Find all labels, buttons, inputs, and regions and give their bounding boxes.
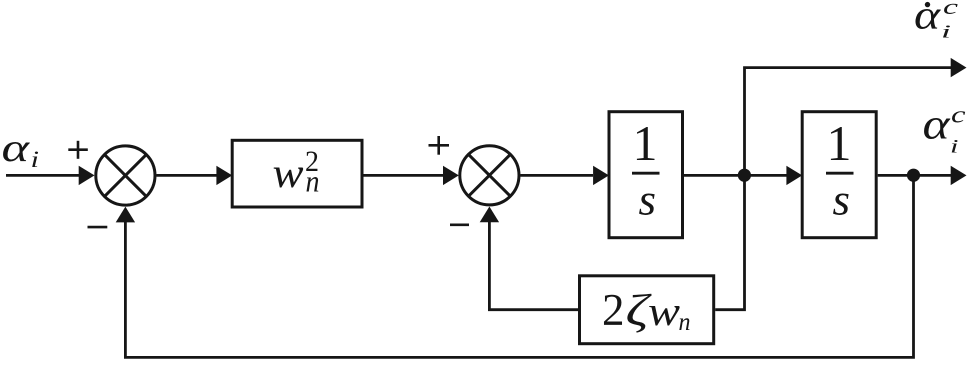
svg-text:w: w bbox=[273, 151, 304, 197]
arrowhead into junction1 bbox=[79, 166, 95, 185]
label 1/s integrator2 value bbox=[826, 115, 854, 225]
wire junction2 to integrator1 bbox=[520, 174, 593, 177]
svg-text:w: w bbox=[648, 288, 681, 334]
svg-text:α: α bbox=[2, 125, 31, 170]
plus sign at junction1 bbox=[68, 148, 88, 151]
svg-text:1: 1 bbox=[633, 115, 658, 171]
wire input line bbox=[6, 174, 79, 177]
arrowhead up into junction2 bbox=[480, 207, 499, 223]
minus sign at junction2 bbox=[450, 224, 469, 227]
minus sign at junction1 bbox=[88, 226, 108, 229]
block integrator 1/s second bbox=[802, 112, 876, 238]
node B junction dot bbox=[907, 169, 920, 182]
plus sign at junction2 bbox=[429, 144, 450, 147]
wire node A down to damping box bbox=[715, 175, 744, 309]
svg-text:n: n bbox=[306, 164, 320, 199]
arrowhead into junction2 bbox=[443, 166, 459, 185]
block damping 2-zeta-wn bbox=[580, 276, 714, 344]
wire integrator2 to node B bbox=[878, 174, 914, 177]
svg-text:α: α bbox=[923, 102, 952, 149]
wire integrator1 to node A bbox=[684, 174, 745, 177]
arrowhead into integrator1 bbox=[593, 166, 609, 185]
label alpha-i-c main output bbox=[923, 102, 966, 158]
label 2-zeta-wn value bbox=[602, 285, 691, 336]
svg-text:i: i bbox=[941, 22, 951, 42]
label alpha-dot-i-c top output bbox=[914, 0, 958, 42]
wire node A vertical up and top output run bbox=[745, 68, 953, 176]
wire wn2 box to junction2 bbox=[364, 174, 445, 177]
svg-text:c: c bbox=[943, 0, 958, 19]
svg-text:c: c bbox=[951, 103, 966, 129]
svg-text:s: s bbox=[639, 176, 657, 225]
arrowhead output alpha dot c bbox=[951, 58, 967, 77]
svg-text:s: s bbox=[833, 176, 851, 225]
summing junction S1 cross bbox=[105, 155, 147, 197]
wire junction1 to wn2 box bbox=[156, 174, 217, 177]
label 1/s integrator1 value bbox=[632, 115, 660, 225]
summing junction S1 circle bbox=[96, 146, 155, 205]
wire damping box to junction2 bottom riser bbox=[489, 222, 578, 310]
wire node B to output arrow bbox=[914, 174, 953, 177]
block wn^2 bbox=[232, 140, 362, 207]
label alpha_i input bbox=[2, 125, 40, 172]
arrowhead output alpha c bbox=[951, 166, 967, 185]
svg-text:2: 2 bbox=[602, 285, 625, 335]
label wn^2 value bbox=[273, 145, 320, 199]
svg-text:α: α bbox=[914, 0, 942, 38]
summing junction S2 circle bbox=[460, 146, 519, 205]
wire node B down, bottom feedback run, up to junction1 bbox=[125, 175, 913, 357]
svg-text:i: i bbox=[950, 137, 959, 158]
block integrator 1/s first bbox=[609, 112, 683, 238]
svg-text:n: n bbox=[679, 309, 691, 336]
node A junction dot bbox=[738, 169, 751, 182]
arrowhead into integrator2 bbox=[786, 166, 802, 185]
arrowhead up into junction1 bbox=[116, 207, 135, 223]
svg-text:i: i bbox=[31, 147, 40, 172]
summing junction S2 cross bbox=[469, 154, 511, 196]
svg-text:1: 1 bbox=[827, 115, 852, 171]
arrowhead into wn2 box bbox=[216, 166, 232, 185]
wire node A to integrator2 bbox=[745, 174, 788, 177]
